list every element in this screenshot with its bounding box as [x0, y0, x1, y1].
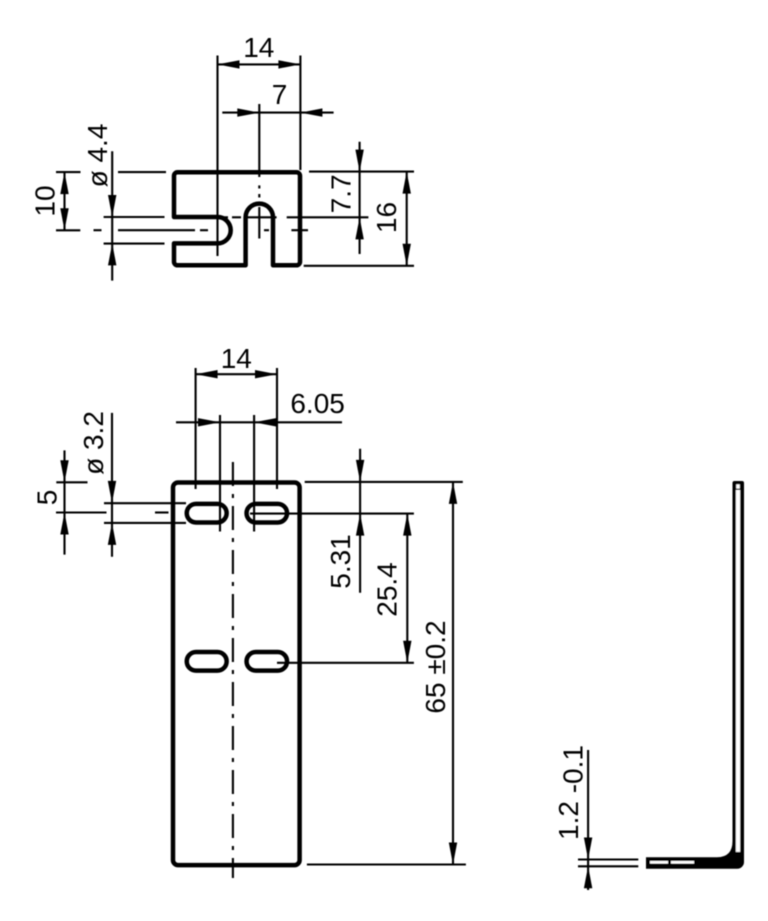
svg-text:65 ±0.2: 65 ±0.2	[420, 620, 451, 713]
dim 14 (top view)	[218, 32, 301, 69]
extension line x=217.5 (dim 14 left / slot arc centre)	[216, 56, 218, 257]
oval slot bottom-right	[247, 652, 287, 671]
svg-text:7.7: 7.7	[326, 174, 357, 213]
dim 1.2 extension lines	[578, 858, 638, 860]
side view L-profile silhouette	[646, 481, 744, 869]
oval slot top-left	[187, 504, 227, 523]
svg-text:25.4: 25.4	[372, 562, 403, 617]
svg-text:5: 5	[32, 490, 63, 506]
dim ø4.4 extension lines	[104, 216, 165, 218]
vertical centerline front view	[232, 462, 234, 878]
dim ø4.4	[82, 124, 116, 281]
dim ø3.2	[78, 411, 116, 557]
top view part outline	[174, 172, 300, 265]
dim 7.7 reference line y=217.3	[220, 216, 369, 218]
top oval extension line right	[250, 513, 414, 515]
dim 10	[30, 172, 69, 230]
dim 1.2 -0.1	[553, 745, 592, 890]
dim 5.31	[325, 449, 364, 593]
dim 25.4	[372, 514, 412, 663]
horizontal centerline y=230.2	[94, 229, 309, 231]
centerline of U slot x=259.3	[258, 104, 260, 239]
svg-text:16: 16	[371, 202, 402, 233]
svg-text:14: 14	[243, 32, 274, 63]
dim 14 (front)	[196, 343, 277, 378]
oval slot top-right	[247, 504, 287, 523]
dim ø3.2 extension lines	[104, 502, 186, 504]
dim 10 extension lines	[56, 171, 81, 173]
svg-text:14: 14	[221, 343, 252, 374]
front view part outline	[173, 483, 300, 866]
dim 6.05 extension lines	[219, 415, 221, 532]
side view inner white dot top	[736, 484, 740, 488]
top edge extension line right (65/5.31)	[305, 481, 463, 483]
dim 6.05	[176, 388, 345, 427]
dim 7 (top view)	[222, 79, 333, 117]
bottom oval extension line right	[277, 662, 414, 664]
svg-text:10: 10	[30, 185, 61, 216]
dim 14 extension lines (front)	[195, 368, 197, 489]
dim 65 ±0.2	[420, 482, 457, 865]
svg-text:6.05: 6.05	[290, 388, 345, 419]
svg-text:1.2 -0.1: 1.2 -0.1	[553, 745, 589, 840]
dim 16 bottom extension line	[304, 265, 414, 267]
svg-text:5.31: 5.31	[325, 534, 356, 589]
svg-text:7: 7	[272, 79, 288, 110]
svg-text:ø 3.2: ø 3.2	[78, 411, 109, 475]
dim 5	[32, 450, 69, 554]
side view inner white sliver horizontal	[650, 861, 668, 864]
dim 7.7 top extension line	[309, 171, 414, 173]
dim 5 extension lines	[56, 481, 87, 483]
bottom edge extension line right	[307, 863, 466, 865]
dim 7.7	[326, 142, 364, 254]
dim 16	[371, 172, 411, 266]
extension line x=300.4 (dim 14/7 right)	[299, 56, 301, 171]
svg-text:ø 4.4: ø 4.4	[82, 124, 113, 188]
side view inner white sliver vertical	[736, 490, 740, 852]
oval slot bottom-left	[187, 652, 227, 671]
